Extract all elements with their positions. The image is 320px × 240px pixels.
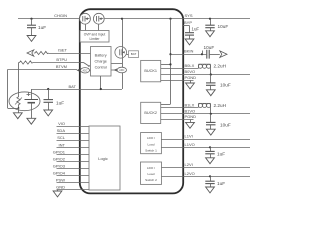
wire BKIN xyxy=(169,48,206,55)
svg-text:B1LX: B1LX xyxy=(185,102,195,107)
capacitor C9 1uF on L2VO xyxy=(205,176,225,187)
wire PGND buck2 xyxy=(161,114,196,122)
svg-text:Limiter: Limiter xyxy=(90,37,101,41)
svg-text:BUCK2: BUCK2 xyxy=(144,111,157,115)
wire B1LX xyxy=(161,102,199,107)
wire B0VO xyxy=(161,69,250,76)
svg-text:1uF: 1uF xyxy=(217,181,225,186)
svg-text:LDO /: LDO / xyxy=(147,166,155,170)
inductor L2 2.2uH xyxy=(198,103,226,114)
block BUCK1 xyxy=(141,60,161,81)
ground for C6 xyxy=(206,90,215,96)
battery BT1 pack ellipse xyxy=(9,92,40,111)
svg-text:GPIO1: GPIO1 xyxy=(53,149,66,154)
ground for C8 xyxy=(206,158,215,164)
svg-text:BKIN: BKIN xyxy=(184,48,193,53)
ground for C2 xyxy=(44,110,53,116)
svg-text:L2VI: L2VI xyxy=(185,162,193,167)
svg-text:LDO /: LDO / xyxy=(147,136,155,140)
block Battery Charge Control xyxy=(91,47,112,77)
svg-text:ADC: ADC xyxy=(119,69,124,72)
block LDO1 load switch xyxy=(141,133,162,154)
wire fet gate link xyxy=(111,63,122,65)
wire BYP xyxy=(183,20,192,25)
ground PGND buck1 xyxy=(186,83,195,89)
transistor Q1 OVP fet xyxy=(80,13,91,24)
wire gate stubs to OVP box xyxy=(86,25,99,31)
svg-text:ISET: ISET xyxy=(58,47,67,52)
switch S1 inside IC on BTPU xyxy=(80,63,90,67)
node sense ellipse xyxy=(111,67,127,73)
ground for C4 xyxy=(185,39,194,45)
svg-text:Load: Load xyxy=(148,172,155,176)
svg-text:Charge: Charge xyxy=(94,60,106,64)
svg-text:Battery: Battery xyxy=(95,53,107,57)
resistor R1 on BTPU xyxy=(19,57,81,64)
svg-text:SYS: SYS xyxy=(185,13,193,18)
wire PGND buck1 xyxy=(161,75,196,83)
svg-text:B0VO: B0VO xyxy=(185,69,196,74)
wire BTVM sense drop xyxy=(8,70,20,113)
svg-text:BTPU: BTPU xyxy=(56,57,67,62)
ground for C9 xyxy=(206,187,215,193)
svg-text:GPIO2: GPIO2 xyxy=(53,156,66,161)
svg-text:B1VO: B1VO xyxy=(185,108,196,113)
wire L1VO xyxy=(161,142,250,149)
wires logic pins VIO SDA SCL INT GPIO1-4 PSW GND xyxy=(53,121,89,189)
IC U1 body outline xyxy=(80,9,183,193)
svg-text:BAT: BAT xyxy=(69,84,77,89)
ground GND pin xyxy=(57,190,59,191)
wire charger drop xyxy=(122,19,124,89)
svg-text:1uF: 1uF xyxy=(217,151,225,156)
svg-text:B0LX: B0LX xyxy=(185,63,195,68)
svg-text:Switch 2: Switch 2 xyxy=(145,178,157,182)
svg-text:BYP: BYP xyxy=(184,20,192,25)
capacitor C7 10uF on B1VO xyxy=(206,114,231,129)
ground battery cell xyxy=(27,118,36,124)
svg-text:PSW: PSW xyxy=(56,177,65,182)
svg-text:BTVM: BTVM xyxy=(56,64,67,69)
svg-text:Logic: Logic xyxy=(98,156,108,161)
svg-text:Load: Load xyxy=(148,142,155,146)
ground for C3 xyxy=(206,31,215,37)
capacitor C1 1uF on CHGIN xyxy=(27,18,46,36)
svg-text:GPIO4: GPIO4 xyxy=(53,170,66,175)
capacitor C2 1uF on BAT xyxy=(44,88,65,110)
svg-text:SDA: SDA xyxy=(57,128,66,133)
svg-text:1uF: 1uF xyxy=(38,25,46,30)
svg-text:L1VO: L1VO xyxy=(185,142,195,147)
ground thermistor xyxy=(13,113,22,119)
ground PGND buck2 xyxy=(186,122,195,128)
block LDO2 load switch xyxy=(141,162,162,184)
wire L2VO xyxy=(162,171,251,178)
svg-text:PGND: PGND xyxy=(185,114,197,119)
wire SYS rail xyxy=(105,13,250,19)
wire B0LX xyxy=(161,63,199,69)
wire L2VI xyxy=(162,162,251,168)
capacitor C8 1uF on L1VO xyxy=(205,147,225,158)
svg-text:CHGIN: CHGIN xyxy=(54,13,67,18)
wire bus SYS internal xyxy=(161,18,172,105)
svg-text:BAT: BAT xyxy=(131,52,137,56)
svg-text:INT: INT xyxy=(59,142,66,147)
block Logic xyxy=(89,126,120,190)
wire CHGIN xyxy=(18,13,80,18)
thermistor RT1 xyxy=(15,63,22,109)
battery cell symbol xyxy=(25,89,39,118)
inductor L1 2.2uH xyxy=(198,63,226,74)
svg-text:10uF: 10uF xyxy=(218,24,229,29)
wire L1VI xyxy=(161,134,250,140)
transistor Q3 charger fet xyxy=(115,47,127,59)
wire B1VO xyxy=(161,108,250,115)
transistor Q2 OVP fet xyxy=(93,13,104,24)
node tag ADC on BTVM xyxy=(77,68,91,73)
node tag BAT fet label xyxy=(127,51,139,58)
svg-text:GND: GND xyxy=(56,184,65,189)
block BUCK2 xyxy=(141,102,161,123)
svg-text:Switch 1: Switch 1 xyxy=(145,149,157,153)
capacitor C3 10uF on SYS xyxy=(205,18,228,31)
capacitor C4 1uF on BYP xyxy=(185,26,199,39)
wire BTVM xyxy=(8,64,78,70)
svg-text:L2VO: L2VO xyxy=(185,171,195,176)
svg-text:OVP and Input: OVP and Input xyxy=(84,32,106,36)
svg-text:ADC: ADC xyxy=(82,69,87,72)
svg-text:10uF: 10uF xyxy=(220,83,231,88)
svg-text:GPIO3: GPIO3 xyxy=(53,163,66,168)
capacitor C6 10uF on B0VO xyxy=(206,75,231,90)
ground for C1 xyxy=(27,36,36,42)
wire ISET xyxy=(27,47,91,56)
svg-text:BUCK1: BUCK1 xyxy=(144,69,157,73)
svg-text:10uF: 10uF xyxy=(204,45,215,50)
svg-text:1uF: 1uF xyxy=(56,100,64,105)
svg-text:VIO: VIO xyxy=(58,121,65,126)
svg-text:1uF: 1uF xyxy=(192,26,200,31)
svg-text:PGND: PGND xyxy=(185,75,197,80)
capacitor C5 10uF series on BKIN xyxy=(204,45,228,59)
wire BAT xyxy=(31,84,122,90)
wire BCC to BAT xyxy=(100,76,102,90)
svg-text:10uF: 10uF xyxy=(220,123,231,128)
svg-text:Control: Control xyxy=(95,66,107,70)
block OVP and Input Limiter xyxy=(80,31,109,43)
svg-text:2.2uH: 2.2uH xyxy=(214,63,227,68)
svg-text:L1VI: L1VI xyxy=(185,134,193,139)
svg-text:SCL: SCL xyxy=(57,135,66,140)
node charger tap xyxy=(121,18,123,20)
ground for C7 xyxy=(206,129,215,135)
svg-text:2.2uH: 2.2uH xyxy=(214,103,227,108)
